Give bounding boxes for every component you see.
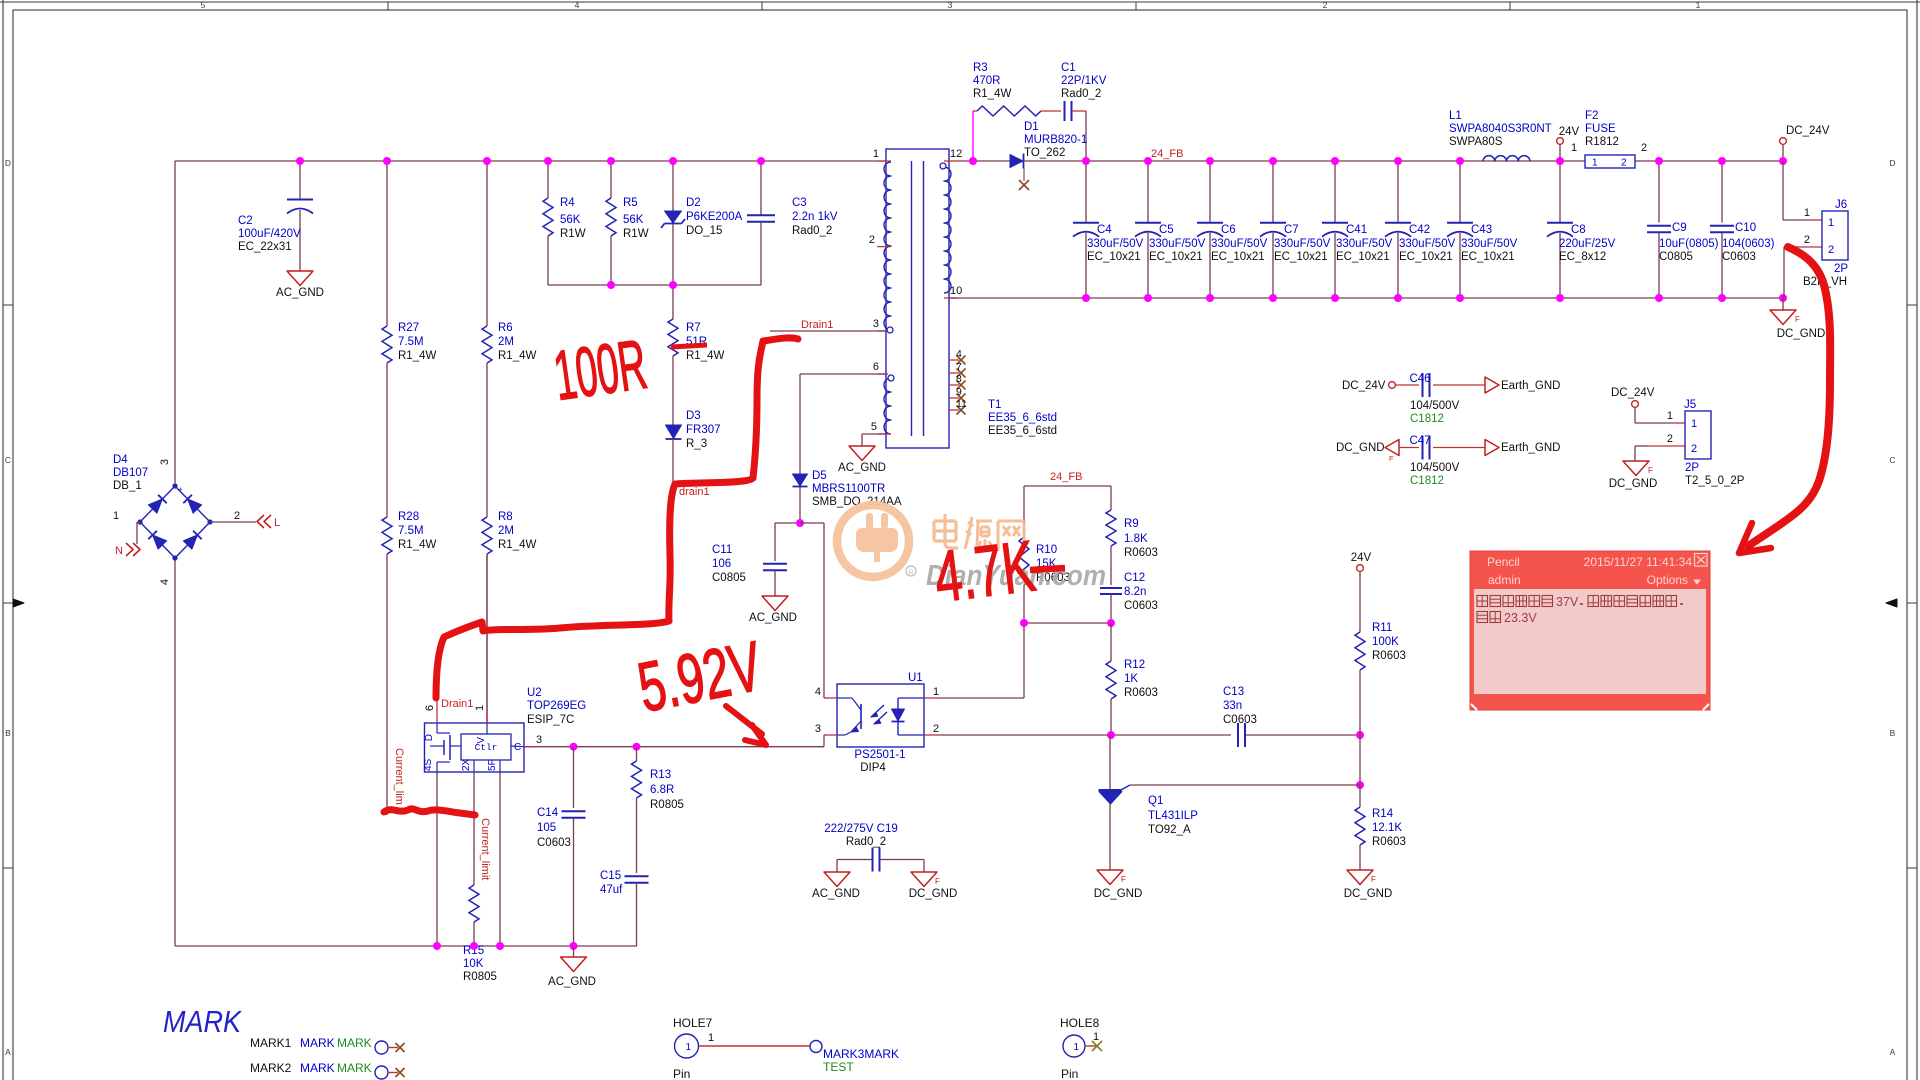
svg-text:-: -	[178, 549, 181, 558]
svg-text:D3: D3	[686, 410, 701, 422]
svg-text:MARK: MARK	[337, 1061, 372, 1075]
capacitor C42	[1385, 161, 1456, 298]
svg-text:MARK: MARK	[300, 1036, 335, 1050]
svg-text:1: 1	[474, 705, 486, 711]
wire R11 to R14	[1356, 735, 1364, 789]
svg-text:DB_1: DB_1	[113, 480, 142, 492]
ground DC_GND (Q1)	[1094, 870, 1143, 900]
svg-text:C2: C2	[238, 215, 253, 227]
svg-text:FUSE: FUSE	[1585, 123, 1616, 135]
terminal DC_24V	[1780, 125, 1830, 161]
node Current_limit (U2 pin2X)	[479, 818, 491, 880]
svg-text:11: 11	[956, 398, 967, 410]
svg-text:330uF/50V: 330uF/50V	[1211, 238, 1268, 250]
svg-text:10uF(0805): 10uF(0805)	[1659, 238, 1719, 250]
svg-text:B: B	[1890, 728, 1896, 738]
svg-text:R0805: R0805	[463, 971, 497, 983]
capacitor C7	[1260, 161, 1331, 298]
svg-text:C10: C10	[1735, 222, 1756, 234]
svg-text:R9: R9	[1124, 518, 1139, 530]
resistor R13	[632, 747, 684, 873]
svg-text:1: 1	[1667, 410, 1673, 422]
svg-text:R1_4W: R1_4W	[398, 350, 436, 362]
svg-text:4: 4	[956, 348, 962, 360]
svg-text:R1_4W: R1_4W	[398, 539, 436, 551]
annotation 5.92V arrow	[632, 627, 768, 745]
svg-text:100uF/420V: 100uF/420V	[238, 228, 301, 240]
connector J6	[1783, 161, 1848, 298]
svg-text:F: F	[1389, 454, 1394, 463]
svg-text:6: 6	[424, 705, 436, 711]
svg-text:R_3: R_3	[686, 438, 707, 450]
svg-text:R27: R27	[398, 322, 419, 334]
svg-text:1: 1	[1571, 142, 1577, 154]
diode D2	[661, 161, 743, 285]
svg-text:1: 1	[1073, 1042, 1079, 1053]
ground DC_GND (J6)	[1770, 298, 1825, 340]
junction dots primary bus	[296, 157, 765, 289]
svg-text:C9: C9	[1672, 222, 1687, 234]
svg-text:A: A	[5, 1047, 11, 1057]
svg-text:10K: 10K	[463, 958, 484, 970]
svg-text:330uF/50V: 330uF/50V	[1461, 238, 1518, 250]
svg-text:D: D	[424, 734, 435, 741]
capacitor C9	[1647, 161, 1719, 298]
svg-text:C3: C3	[792, 197, 807, 209]
svg-text:C11: C11	[712, 544, 732, 556]
svg-text:AC_GND: AC_GND	[548, 976, 596, 988]
svg-text:DC_GND: DC_GND	[1336, 442, 1385, 454]
svg-text:C1: C1	[1061, 62, 1076, 74]
svg-text:R1_4W: R1_4W	[498, 350, 536, 362]
wire snubber left (highlighted)	[972, 111, 974, 161]
svg-text:Rad0_2: Rad0_2	[846, 836, 886, 848]
svg-text:C14: C14	[537, 807, 559, 819]
optocoupler U1	[815, 672, 939, 774]
svg-text:1K: 1K	[1124, 673, 1138, 685]
svg-text:U1: U1	[908, 672, 923, 684]
svg-text:B: B	[5, 728, 11, 738]
svg-text:C43: C43	[1471, 224, 1492, 236]
svg-text:330uF/50V: 330uF/50V	[1087, 238, 1144, 250]
svg-text:R11: R11	[1372, 622, 1392, 634]
svg-text:104/500V: 104/500V	[1410, 400, 1460, 412]
svg-text:2M: 2M	[498, 336, 514, 348]
svg-text:HOLE7: HOLE7	[673, 1016, 713, 1030]
node Drain1 (U2 pin6)	[441, 698, 473, 710]
svg-text:R5: R5	[623, 197, 638, 209]
svg-text:+: +	[178, 485, 183, 494]
node Drain1 (T1 pin3)	[770, 319, 886, 331]
svg-text:1.8K: 1.8K	[1124, 533, 1148, 545]
svg-text:F: F	[1371, 875, 1376, 884]
svg-text:R1W: R1W	[623, 228, 649, 240]
title MARK	[163, 1004, 242, 1039]
svg-text:R1_4W: R1_4W	[498, 539, 536, 551]
svg-text:J6: J6	[1835, 199, 1847, 211]
svg-text:MBRS1100TR: MBRS1100TR	[812, 483, 885, 495]
annotation red trace current-limit	[384, 809, 475, 815]
svg-text:R8: R8	[498, 511, 513, 523]
svg-text:C4: C4	[1097, 224, 1112, 236]
capacitor C5	[1135, 161, 1206, 298]
svg-text:N: N	[115, 545, 123, 557]
svg-text:5F: 5F	[487, 759, 498, 771]
svg-text:6: 6	[873, 361, 879, 373]
svg-text:2: 2	[1323, 0, 1328, 10]
svg-text:C1812: C1812	[1410, 413, 1444, 425]
svg-text:L: L	[274, 517, 280, 529]
svg-text:EC_10x21: EC_10x21	[1336, 251, 1390, 263]
svg-text:2: 2	[869, 234, 875, 246]
svg-text:1: 1	[113, 510, 119, 522]
svg-text:R1_4W: R1_4W	[686, 350, 724, 362]
svg-text:2: 2	[1804, 234, 1810, 246]
ground DC_GND (R14)	[1344, 870, 1393, 900]
svg-text:DO_15: DO_15	[686, 225, 722, 237]
svg-text:56K: 56K	[560, 214, 581, 226]
svg-text:Rad0_2: Rad0_2	[792, 225, 832, 237]
svg-text:EC_8x12: EC_8x12	[1559, 251, 1606, 263]
svg-text:DB107: DB107	[113, 467, 148, 479]
svg-text:10: 10	[950, 285, 962, 297]
svg-text:1: 1	[933, 686, 939, 698]
svg-text:F: F	[935, 877, 940, 886]
wire secondary bottom bus	[949, 297, 1783, 299]
resistor R12	[1106, 623, 1158, 735]
svg-text:C0805: C0805	[712, 572, 746, 584]
svg-text:DC_GND: DC_GND	[1609, 478, 1658, 490]
svg-text:2015/11/27 11:41:34: 2015/11/27 11:41:34	[1584, 555, 1693, 569]
svg-text:R1W: R1W	[560, 228, 586, 240]
capacitor C19	[824, 823, 924, 872]
svg-text:R6: R6	[498, 322, 513, 334]
svg-text:12: 12	[950, 148, 962, 160]
svg-text:3: 3	[873, 318, 879, 330]
svg-text:F: F	[1648, 466, 1653, 475]
svg-text:EC_10x21: EC_10x21	[1211, 251, 1265, 263]
wire feedback divider mid	[1020, 619, 1115, 627]
svg-text:47uf: 47uf	[600, 884, 623, 896]
svg-text:HOLE8: HOLE8	[1060, 1016, 1100, 1030]
capacitor C1	[1061, 62, 1107, 161]
svg-text:23.3V: 23.3V	[1504, 611, 1537, 625]
wire primary bottom bus	[175, 945, 637, 947]
svg-text:4: 4	[815, 686, 821, 698]
svg-text:56K: 56K	[623, 214, 644, 226]
svg-text:T2_5_0_2P: T2_5_0_2P	[1685, 475, 1745, 487]
resistor R28	[382, 511, 436, 815]
svg-text:D4: D4	[113, 454, 128, 466]
svg-text:4: 4	[575, 0, 580, 10]
svg-text:MARK: MARK	[337, 1036, 372, 1050]
svg-text:33n: 33n	[1223, 700, 1242, 712]
svg-text:2: 2	[1641, 142, 1647, 154]
svg-text:R0603: R0603	[1372, 836, 1406, 848]
ground DC_GND (C19)	[909, 872, 958, 900]
svg-text:MARK2: MARK2	[250, 1061, 292, 1075]
svg-text:admin: admin	[1488, 573, 1521, 587]
svg-text:AC_GND: AC_GND	[276, 287, 324, 299]
svg-text:R: R	[908, 570, 913, 577]
svg-text:1: 1	[873, 148, 879, 160]
resistor R3	[973, 62, 1061, 116]
svg-text:TO_262: TO_262	[1024, 147, 1065, 159]
svg-text:MARK: MARK	[300, 1061, 335, 1075]
capacitor C15	[600, 870, 649, 946]
resistor R9	[1106, 486, 1158, 585]
svg-text:C: C	[1889, 455, 1895, 465]
node 24_FB (bus)	[1151, 148, 1183, 160]
svg-text:C6: C6	[1221, 224, 1236, 236]
svg-text:EC_10x21: EC_10x21	[1461, 251, 1515, 263]
connector J5	[1611, 387, 1745, 487]
svg-text:24V: 24V	[1351, 552, 1372, 564]
svg-text:24_FB: 24_FB	[1151, 148, 1183, 160]
svg-text:C: C	[514, 742, 521, 753]
svg-text:R4: R4	[560, 197, 575, 209]
svg-text:R12: R12	[1124, 659, 1145, 671]
svg-text:Pin: Pin	[1061, 1067, 1078, 1080]
svg-text:104(0603): 104(0603)	[1722, 238, 1775, 250]
diode D3	[666, 410, 721, 492]
svg-text:1: 1	[1828, 217, 1834, 229]
svg-text:7.5M: 7.5M	[398, 336, 424, 348]
svg-text:R7: R7	[686, 322, 701, 334]
watermark logo	[837, 505, 1106, 592]
svg-text:C0805: C0805	[1659, 251, 1693, 263]
svg-text:Earth_GND: Earth_GND	[1501, 442, 1560, 454]
svg-text:MURB820-1: MURB820-1	[1024, 134, 1087, 146]
svg-text:Rad0_2: Rad0_2	[1061, 88, 1101, 100]
svg-text:C0603: C0603	[1124, 600, 1158, 612]
svg-text:EC_10x21: EC_10x21	[1149, 251, 1203, 263]
svg-text:FR307: FR307	[686, 424, 721, 436]
svg-text:C1812: C1812	[1410, 475, 1444, 487]
svg-text:TO92_A: TO92_A	[1148, 824, 1191, 836]
resistor R14	[1355, 785, 1406, 870]
svg-text:C47: C47	[1409, 435, 1430, 447]
svg-text:330uF/50V: 330uF/50V	[1399, 238, 1456, 250]
svg-text:5: 5	[871, 421, 877, 433]
svg-text:F: F	[1121, 875, 1126, 884]
svg-text:9: 9	[956, 386, 962, 398]
mark MARK2	[250, 1061, 405, 1079]
svg-text:DC_24V: DC_24V	[1342, 380, 1386, 392]
svg-text:R0603: R0603	[1372, 650, 1406, 662]
resistor R10	[937, 471, 1111, 698]
capacitor C41	[1322, 161, 1393, 298]
svg-text:Q1: Q1	[1148, 795, 1163, 807]
svg-text:C0603: C0603	[1722, 251, 1756, 263]
svg-text:105: 105	[537, 822, 556, 834]
svg-text:DIP4: DIP4	[860, 762, 886, 774]
svg-text:1: 1	[1592, 158, 1598, 169]
svg-text:C7: C7	[1284, 224, 1299, 236]
svg-text:3: 3	[948, 0, 953, 10]
capacitor C14	[537, 747, 586, 946]
svg-text:R1_4W: R1_4W	[973, 88, 1011, 100]
svg-text:C46: C46	[1409, 373, 1430, 385]
controller U2	[423, 554, 586, 946]
svg-text:4: 4	[159, 579, 171, 585]
svg-text:T1: T1	[988, 399, 1001, 411]
svg-text:TL431ILP: TL431ILP	[1148, 810, 1198, 822]
svg-text:J5: J5	[1684, 399, 1696, 411]
capacitor C46	[1342, 373, 1560, 425]
svg-text:F: F	[1795, 315, 1800, 324]
svg-text:470R: 470R	[973, 75, 1001, 87]
resistor R27	[382, 161, 436, 517]
ground DC_GND (J5)	[1609, 461, 1658, 490]
capacitor C4	[1073, 161, 1144, 298]
svg-text:D5: D5	[812, 470, 827, 482]
svg-text:6.8R: 6.8R	[650, 784, 674, 796]
svg-text:DC_24V: DC_24V	[1786, 125, 1830, 137]
svg-text:drain1: drain1	[679, 486, 710, 498]
svg-text:100K: 100K	[1372, 636, 1399, 648]
svg-text:EC_10x21: EC_10x21	[1399, 251, 1453, 263]
svg-text:100R: 100R	[549, 325, 651, 415]
svg-text:DC_24V: DC_24V	[1611, 387, 1655, 399]
svg-text:1: 1	[1696, 0, 1701, 10]
svg-text:R10: R10	[1036, 544, 1057, 556]
svg-text:106: 106	[712, 558, 731, 570]
svg-text:R0603: R0603	[1124, 687, 1158, 699]
svg-text:2: 2	[1691, 443, 1697, 455]
svg-text:EC_10x21: EC_10x21	[1274, 251, 1328, 263]
svg-text:330uF/50V: 330uF/50V	[1149, 238, 1206, 250]
svg-text:R28: R28	[398, 511, 419, 523]
diode D5	[793, 374, 902, 523]
svg-text:SWPA80S: SWPA80S	[1449, 136, 1503, 148]
svg-text:AC_GND: AC_GND	[749, 612, 797, 624]
junction dots output bus	[969, 157, 1787, 302]
note box Pencil	[1470, 551, 1710, 710]
svg-text:7: 7	[956, 361, 962, 373]
svg-text:220uF/25V: 220uF/25V	[1559, 238, 1616, 250]
svg-text:37V: 37V	[1556, 595, 1579, 609]
svg-text:8.2n: 8.2n	[1124, 586, 1146, 598]
svg-text:2P: 2P	[1834, 263, 1848, 275]
svg-text:2P: 2P	[1685, 462, 1699, 474]
svg-text:C42: C42	[1409, 224, 1430, 236]
capacitor C43	[1447, 161, 1518, 298]
annotation 4.7K	[930, 526, 1065, 618]
ground AC_GND (T1 pin5)	[838, 446, 886, 474]
svg-text:EE35_6_6std: EE35_6_6std	[988, 412, 1057, 424]
svg-text:2: 2	[1828, 244, 1834, 256]
svg-text:330uF/50V: 330uF/50V	[1274, 238, 1331, 250]
svg-text:Drain1: Drain1	[801, 319, 833, 331]
svg-text:DC_GND: DC_GND	[1777, 328, 1826, 340]
ground AC_GND (C19)	[812, 872, 860, 900]
svg-text:MARK3MARK: MARK3MARK	[823, 1047, 899, 1061]
svg-text:24V: 24V	[1559, 126, 1580, 138]
svg-text:12.1K: 12.1K	[1372, 822, 1402, 834]
resistor R15	[463, 885, 497, 983]
svg-text:8: 8	[956, 373, 962, 385]
wire U2-C to U1 pin3	[524, 735, 824, 751]
svg-text:R0603: R0603	[1124, 547, 1158, 559]
wire clamp sub-bus	[548, 284, 761, 286]
svg-text:2: 2	[933, 723, 939, 735]
svg-text:1: 1	[1804, 207, 1810, 219]
svg-text:R1812: R1812	[1585, 136, 1619, 148]
inductor L1	[1449, 110, 1552, 161]
svg-text:PS2501-1: PS2501-1	[854, 749, 905, 761]
resistor R5	[606, 161, 649, 285]
capacitor C8	[1547, 161, 1616, 298]
svg-text:C8: C8	[1571, 224, 1586, 236]
svg-text:2X: 2X	[461, 758, 472, 771]
svg-text:DC_GND: DC_GND	[1094, 888, 1143, 900]
svg-text:EC_10x21: EC_10x21	[1087, 251, 1141, 263]
svg-text:22P/1KV: 22P/1KV	[1061, 75, 1107, 87]
hole HOLE8	[1060, 1016, 1102, 1080]
resistor R11	[1351, 552, 1406, 735]
svg-text:R14: R14	[1372, 808, 1394, 820]
capacitor C2	[238, 161, 313, 271]
node drain1 (D3)	[679, 486, 710, 498]
svg-text:2: 2	[234, 510, 240, 522]
svg-text:L1: L1	[1449, 110, 1462, 122]
diode D1	[957, 121, 1087, 190]
hole HOLE7	[673, 1016, 899, 1080]
fuse F2	[1571, 110, 1647, 169]
svg-text:DC_GND: DC_GND	[909, 888, 958, 900]
svg-text:C5: C5	[1159, 224, 1174, 236]
svg-text:1: 1	[1691, 418, 1697, 430]
svg-text:Earth_GND: Earth_GND	[1501, 380, 1560, 392]
capacitor C13	[1223, 686, 1257, 747]
svg-text:Pin: Pin	[673, 1067, 690, 1080]
svg-text:EE35_6_6std: EE35_6_6std	[988, 425, 1057, 437]
svg-text:R13: R13	[650, 769, 671, 781]
svg-text:Current_limit: Current_limit	[479, 818, 491, 880]
capacitor C47	[1336, 435, 1560, 487]
svg-text:DC_GND: DC_GND	[1344, 888, 1393, 900]
svg-text:MARK1: MARK1	[250, 1036, 292, 1050]
svg-text:C12: C12	[1124, 572, 1145, 584]
transformer T1	[869, 148, 1057, 448]
bridge rectifier D4	[113, 454, 240, 585]
svg-text:330uF/50V: 330uF/50V	[1336, 238, 1393, 250]
svg-text:D2: D2	[686, 197, 701, 209]
capacitor C12	[1100, 572, 1158, 623]
svg-text:1: 1	[685, 1042, 691, 1053]
port L	[210, 515, 280, 529]
svg-text:Current_lim: Current_lim	[393, 748, 405, 805]
wire D5 to U1 pin4	[800, 523, 824, 698]
mark MARK1	[250, 1036, 405, 1054]
svg-text:R0805: R0805	[650, 799, 684, 811]
svg-text:4S: 4S	[423, 758, 434, 771]
node Current_lim (R28)	[393, 748, 405, 805]
svg-text:1: 1	[708, 1032, 714, 1044]
wire primary top bus	[175, 160, 886, 162]
svg-text:C0603: C0603	[537, 837, 571, 849]
capacitor C11	[712, 519, 804, 596]
capacitor C6	[1197, 161, 1268, 298]
svg-text:2: 2	[1621, 158, 1627, 169]
svg-text:SWPA8040S3R0NT: SWPA8040S3R0NT	[1449, 123, 1552, 135]
svg-text:F2: F2	[1585, 110, 1598, 122]
capacitor C3	[747, 161, 838, 285]
wire T1 pin5 to ground	[862, 434, 886, 446]
svg-text:C41: C41	[1346, 224, 1367, 236]
svg-text:A: A	[1890, 1047, 1896, 1057]
